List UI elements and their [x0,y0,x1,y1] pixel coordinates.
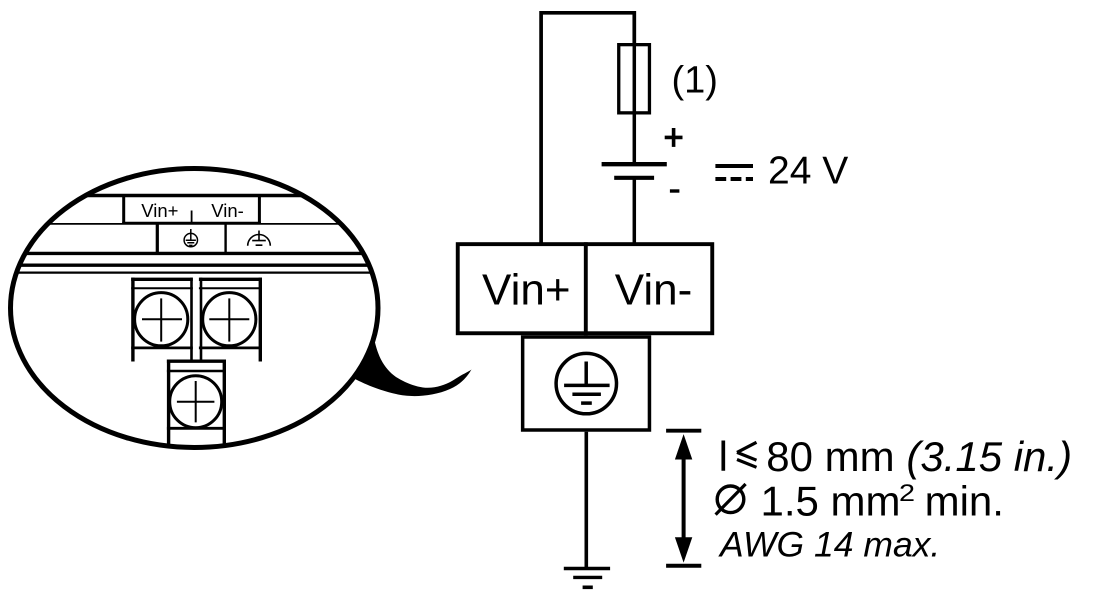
screw terminal bottom (PE) [167,360,226,449]
polarity label - [670,189,680,192]
annotation l <= 80 mm (3.15 in.) [719,433,1072,480]
small functional earth symbol [248,231,271,246]
svg-text:l: l [719,433,728,480]
wire: PE terminal to earth ground [584,432,588,569]
svg-text:min.: min. [925,477,1004,524]
screw terminal right (Vin-) [199,278,262,362]
terminal strip lower thin line [10,272,378,274]
divider between Vin+ and Vin- cells [584,242,588,335]
callout balloon ellipse [11,169,379,448]
earth ground symbol [564,569,610,588]
dimension tick top [666,429,701,433]
callout balloon tail [353,338,472,396]
screw terminal left (Vin+) [131,278,193,362]
svg-text:24 V: 24 V [768,150,848,193]
dimension arrow line [682,455,686,541]
battery 24 V negative plate [614,176,654,180]
fuse (1) [619,45,650,113]
svg-text:2: 2 [899,479,915,506]
terminal strip thin line under label box [10,223,378,225]
svg-text:Vin+: Vin+ [141,200,178,221]
polarity label + [665,128,683,147]
DC symbol [715,166,753,179]
terminal strip lower thick line 1 [10,252,378,255]
svg-text:Vin-: Vin- [211,200,244,221]
dimension arrowhead up [675,434,692,459]
svg-text:Vin+: Vin+ [482,266,571,315]
wire: fuse to battery positive plate [633,44,637,163]
dimension tick bottom [666,564,701,568]
label box Vin+ / Vin- [122,194,261,225]
wire: top loop from Vin+ terminal up and over to fuse [541,13,634,243]
callout detail view contents (clipped to balloon) [10,194,378,448]
terminal strip lower thick line 2 [10,264,378,267]
terminal block Vin+ / Vin- [458,244,713,333]
svg-text:1.5 mm: 1.5 mm [761,477,901,524]
row divider left of PE cell [156,224,159,253]
svg-text:AWG 14 max.: AWG 14 max. [718,525,940,565]
terminal strip top edge line [10,194,378,197]
wire: battery negative to Vin- terminal [633,178,637,243]
center tick between labels [191,211,193,224]
dimension arrowhead down [675,537,692,562]
svg-text:80 mm (3.15 in.): 80 mm (3.15 in.) [766,433,1072,480]
svg-text:(1): (1) [672,60,718,102]
annotation diameter 1.5 mm2 min. [716,477,1004,524]
battery 24 V positive plate [602,162,667,166]
small protective earth symbol [184,229,197,247]
protective earth terminal box [523,337,650,430]
row divider right of PE cell [224,224,226,253]
svg-text:Vin-: Vin- [615,266,692,315]
protective earth symbol PE [556,353,616,413]
